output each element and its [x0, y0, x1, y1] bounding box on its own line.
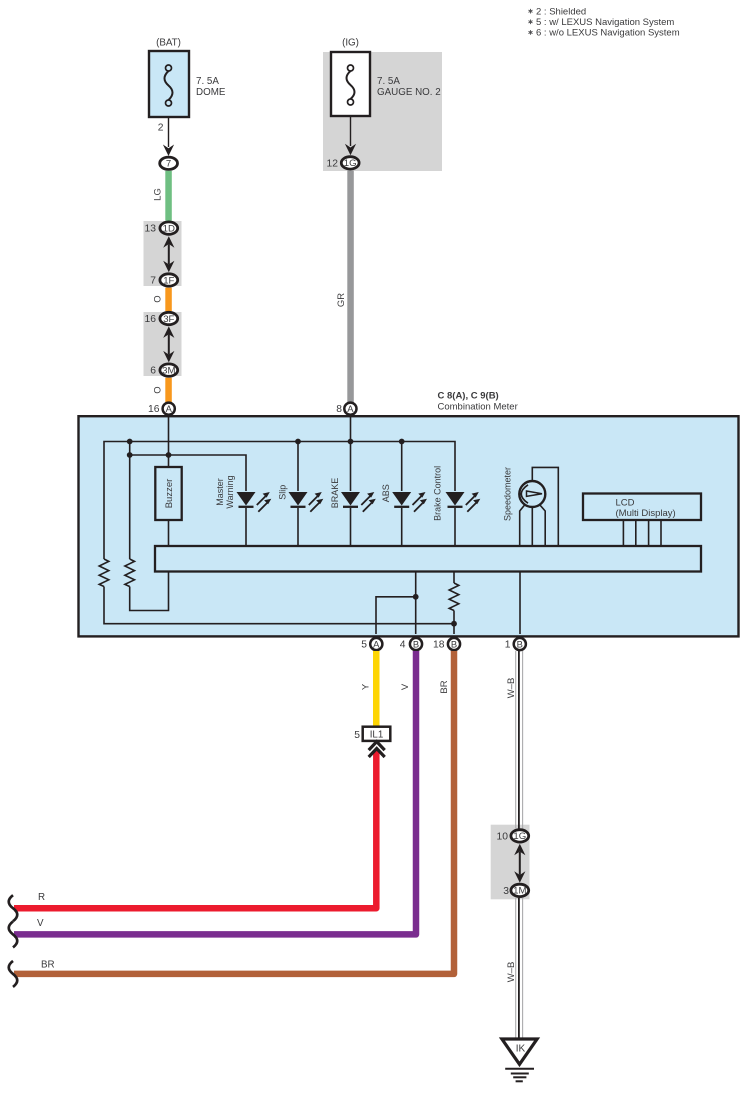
svg-text:W–B: W–B	[506, 678, 517, 699]
svg-text:Buzzer: Buzzer	[164, 479, 175, 509]
svg-text:16: 16	[148, 404, 160, 415]
svg-text:MasterWarning: MasterWarning	[215, 475, 235, 508]
svg-text:1D: 1D	[163, 223, 175, 234]
svg-text:6: 6	[150, 366, 156, 377]
svg-text:DOME: DOME	[196, 87, 226, 98]
svg-text:GAUGE NO. 2: GAUGE NO. 2	[377, 87, 441, 98]
svg-text:A: A	[373, 638, 380, 649]
svg-text:7: 7	[166, 159, 171, 170]
svg-text:V: V	[400, 683, 411, 690]
svg-text:5 : w/ LEXUS Navigation System: 5 : w/ LEXUS Navigation System	[536, 17, 674, 28]
svg-text:IL1: IL1	[370, 730, 384, 741]
svg-text:3F: 3F	[163, 314, 174, 325]
svg-text:Speedometer: Speedometer	[503, 467, 513, 521]
svg-text:O: O	[153, 386, 164, 393]
svg-text:18: 18	[433, 640, 445, 651]
svg-text:1G: 1G	[513, 831, 526, 842]
svg-text:V: V	[37, 918, 44, 929]
svg-text:B: B	[517, 638, 523, 649]
svg-text:BR: BR	[41, 960, 55, 971]
svg-text:O: O	[153, 295, 164, 302]
svg-text:13: 13	[145, 224, 157, 235]
svg-text:1: 1	[505, 640, 511, 651]
svg-text:(Multi Display): (Multi Display)	[616, 508, 676, 519]
svg-text:R: R	[38, 892, 45, 903]
svg-text:BR: BR	[439, 680, 450, 693]
svg-text:Y: Y	[361, 683, 372, 690]
svg-text:3M: 3M	[162, 365, 175, 376]
svg-text:6 : w/o LEXUS Navigation Syste: 6 : w/o LEXUS Navigation System	[536, 28, 680, 39]
svg-text:1F: 1F	[163, 275, 174, 286]
svg-text:7: 7	[150, 276, 156, 287]
svg-text:ABS: ABS	[381, 484, 391, 502]
svg-text:5: 5	[354, 730, 360, 741]
svg-text:3: 3	[503, 886, 509, 897]
svg-text:(BAT): (BAT)	[156, 38, 181, 49]
svg-text:BRAKE: BRAKE	[330, 478, 340, 509]
svg-text:GR: GR	[336, 293, 347, 307]
svg-text:(IG): (IG)	[342, 38, 359, 49]
svg-text:2: 2	[158, 123, 164, 134]
svg-text:A: A	[166, 403, 173, 414]
svg-text:C 8(A), C 9(B): C 8(A), C 9(B)	[438, 391, 499, 402]
svg-text:A: A	[347, 403, 354, 414]
svg-text:B: B	[451, 638, 457, 649]
svg-text:Slip: Slip	[278, 485, 288, 500]
svg-text:5: 5	[361, 640, 367, 651]
svg-text:Combination Meter: Combination Meter	[438, 401, 518, 412]
svg-text:B: B	[413, 638, 419, 649]
svg-text:7. 5A: 7. 5A	[377, 76, 400, 87]
svg-text:8: 8	[336, 404, 342, 415]
svg-text:1M: 1M	[513, 886, 526, 897]
svg-text:7. 5A: 7. 5A	[196, 76, 219, 87]
svg-text:2 : Shielded: 2 : Shielded	[536, 6, 586, 17]
svg-text:4: 4	[400, 640, 406, 651]
svg-text:LCD: LCD	[616, 497, 635, 508]
svg-text:LG: LG	[153, 188, 164, 201]
svg-text:1G: 1G	[344, 158, 357, 169]
svg-text:IK: IK	[516, 1044, 526, 1055]
svg-text:10: 10	[497, 831, 509, 842]
svg-text:12: 12	[327, 158, 339, 169]
svg-text:Brake Control: Brake Control	[433, 466, 443, 521]
svg-text:W–B: W–B	[506, 962, 517, 983]
svg-text:16: 16	[145, 314, 157, 325]
